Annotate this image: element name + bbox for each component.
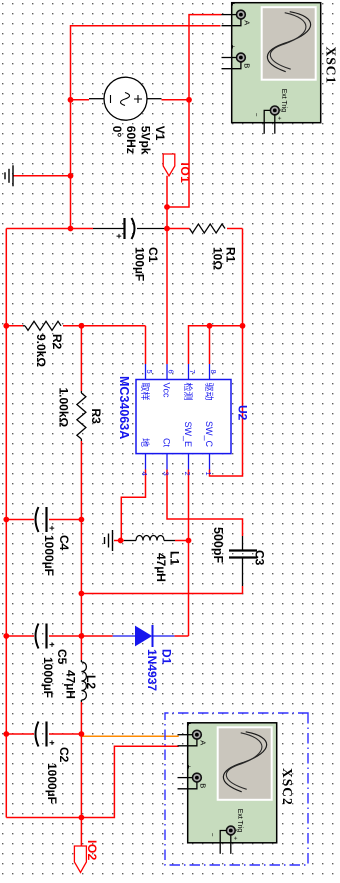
svg-text:Ct: Ct [162,438,172,447]
svg-text:U2: U2 [236,405,250,421]
svg-text:6: 6 [167,370,176,374]
svg-text:+: + [114,234,124,239]
svg-text:10Ω: 10Ω [211,247,225,270]
svg-text:−: − [253,113,260,117]
svg-text:C1: C1 [146,247,160,263]
svg-text:3: 3 [162,472,171,476]
svg-text:1000µF: 1000µF [45,763,59,804]
svg-text:47µH: 47µH [64,670,78,699]
svg-text:−: − [184,791,191,795]
svg-text:+: + [185,765,192,769]
svg-text:驱动: 驱动 [204,383,214,401]
svg-text:−: − [228,28,235,32]
svg-text:0°: 0° [110,126,124,138]
svg-text:B: B [243,63,252,68]
svg-text:7: 7 [188,370,197,374]
svg-text:R1: R1 [224,247,238,263]
svg-text:1: 1 [204,472,213,476]
svg-text:−: − [184,748,191,752]
svg-text:C4: C4 [57,535,71,551]
svg-text:C3: C3 [253,550,267,566]
svg-text:1N4937: 1N4937 [145,649,159,691]
svg-text:R2: R2 [50,334,64,350]
svg-text:SW_E: SW_E [183,421,193,447]
svg-text:+: + [47,526,57,531]
svg-text:5: 5 [145,370,154,374]
svg-text:Ext Trig: Ext Trig [280,89,287,113]
svg-text:检测: 检测 [183,383,194,401]
svg-text:Vcc: Vcc [162,383,172,399]
svg-text:D1: D1 [160,649,174,665]
svg-text:取样: 取样 [140,383,151,401]
svg-text:5Vpk: 5Vpk [139,126,153,155]
svg-text:L1: L1 [168,551,182,565]
svg-text:1.00kΩ: 1.00kΩ [57,388,71,428]
svg-text:2: 2 [183,472,192,476]
svg-text:XSC2: XSC2 [280,768,295,806]
svg-text:8: 8 [209,370,218,374]
svg-text:4: 4 [140,472,149,476]
svg-text:1000µF: 1000µF [42,535,56,576]
svg-text:MC34063A: MC34063A [117,376,131,439]
svg-text:500pF: 500pF [211,527,225,563]
svg-text:60Hz: 60Hz [124,126,138,154]
svg-text:IO2: IO2 [85,840,99,861]
svg-text:−: − [228,71,235,75]
svg-text:Ext Trig: Ext Trig [236,809,243,833]
svg-text:R3: R3 [89,409,103,425]
svg-text:A: A [199,740,208,745]
svg-text:+: + [229,45,236,49]
svg-text:9.0kΩ: 9.0kΩ [34,334,48,367]
svg-text:1000µF: 1000µF [41,657,55,698]
svg-text:C5: C5 [55,649,69,665]
svg-text:+: + [185,722,192,726]
svg-text:V1: V1 [153,126,167,141]
svg-text:47µH: 47µH [154,553,168,582]
svg-text:L2: L2 [84,675,98,689]
svg-text:+: + [229,2,236,6]
svg-text:−: − [209,833,216,837]
svg-text:XSC1: XSC1 [324,47,339,85]
svg-text:+: + [232,836,239,840]
svg-text:+: + [47,642,57,647]
svg-text:100µF: 100µF [133,247,147,281]
svg-text:A: A [243,20,252,25]
svg-text:C2: C2 [57,747,71,763]
svg-text:+: + [276,116,283,120]
svg-text:SW_C: SW_C [204,421,214,448]
svg-text:+: + [47,740,57,745]
svg-text:地: 地 [140,438,151,447]
svg-text:B: B [199,783,208,788]
svg-text:IO1: IO1 [178,163,192,184]
